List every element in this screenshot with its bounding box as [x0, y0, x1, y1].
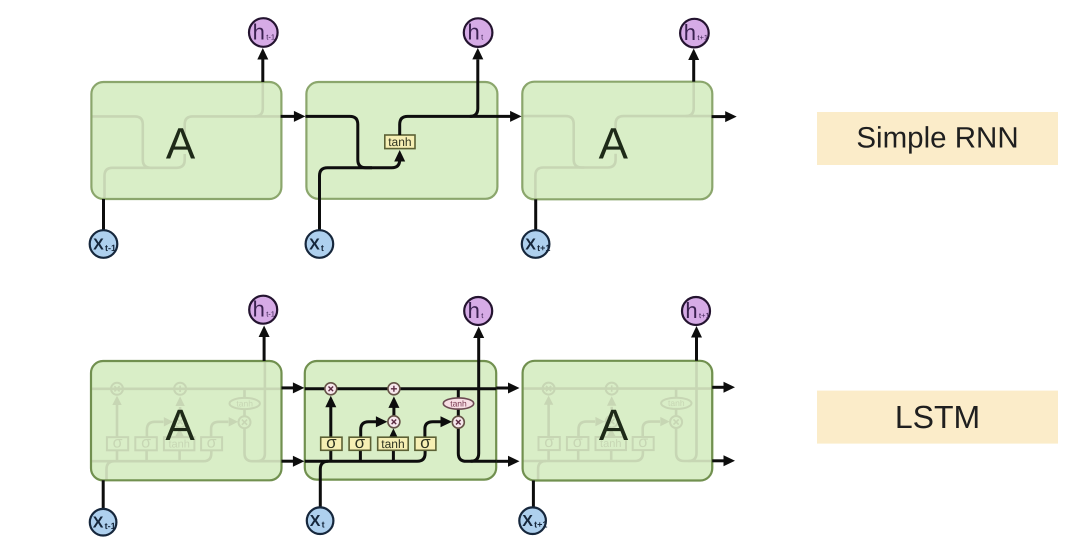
gate boxes sigma sigma tanh sigma: [321, 437, 342, 450]
label: Simple RNN: [817, 112, 1058, 165]
svg-text:t+1: t+1: [534, 520, 547, 530]
wire: hidden state arrow to t+1: [496, 460, 512, 463]
wire: x(t+1) into ghost box: [534, 199, 537, 230]
svg-text:X: X: [310, 513, 321, 530]
wire: hidden state arrow from t-1: [282, 460, 298, 463]
wire: xright down to output line: [458, 428, 496, 461]
node h(t+1) top row: [680, 19, 709, 48]
RNN module box A (t+1, ghost internals): [522, 82, 712, 199]
wire: branch up to h(t) bottom row: [471, 338, 479, 461]
LSTM module box A (t-1, ghost internals): [91, 361, 282, 480]
operator: forget multiply: [325, 383, 337, 395]
svg-text:σ: σ: [420, 433, 431, 452]
tanh oval on cell output: [443, 398, 473, 409]
svg-text:A: A: [599, 401, 629, 450]
svg-text:σ: σ: [355, 433, 366, 452]
svg-text:h: h: [685, 298, 697, 323]
node x(t-1) bottom row: [90, 509, 117, 536]
svg-text:σ: σ: [326, 433, 337, 452]
LSTM module box A (t+1, ghost internals): [523, 361, 714, 480]
svg-text:Simple RNN: Simple RNN: [856, 121, 1018, 154]
node x(t+1) bottom row: [519, 507, 546, 534]
node x(t) bottom row: [307, 507, 334, 534]
node h(t+1) bottom row: [682, 297, 710, 325]
wire: xmid to plus arrow: [392, 407, 395, 416]
svg-text:t-1: t-1: [266, 32, 275, 41]
svg-text:t-1: t-1: [105, 243, 116, 253]
svg-text:h: h: [253, 20, 265, 45]
svg-text:X: X: [309, 237, 320, 254]
wire: hidden state arrow out of t+1: [712, 459, 726, 462]
wire: input bottom line LSTM t: [305, 450, 425, 461]
wire: h(t-1) arrow above ghost box: [261, 59, 264, 82]
operator: output multiply: [452, 416, 464, 428]
wire: x(t-1) into ghost box: [102, 199, 105, 230]
svg-text:t-1: t-1: [105, 521, 116, 531]
svg-text:tanh: tanh: [450, 398, 467, 408]
RNN active module box (t): [306, 82, 497, 199]
svg-text:tanh: tanh: [388, 135, 411, 149]
svg-text:X: X: [93, 237, 104, 254]
wire: RNN t+1 output arrow: [712, 115, 727, 118]
label: LSTM: [817, 391, 1058, 444]
wire: x(t+1) into ghost LSTM: [532, 481, 535, 509]
svg-text:t: t: [322, 520, 325, 530]
LSTM active module box (t): [305, 361, 496, 480]
wire: cell to tanh oval: [457, 389, 460, 416]
wire: input gate curve arrow: [361, 422, 378, 437]
svg-text:t+1: t+1: [537, 243, 550, 253]
svg-text:h: h: [468, 298, 480, 323]
svg-text:h: h: [684, 20, 696, 45]
svg-text:h: h: [467, 20, 479, 45]
wire: x(t) into bottom line: [320, 461, 328, 508]
svg-text:h: h: [253, 297, 265, 322]
svg-text:X: X: [525, 237, 536, 254]
node x(t) top row: [306, 230, 334, 258]
svg-text:A: A: [165, 401, 195, 450]
node x(t+1) top row: [522, 230, 550, 258]
tanh activation box RNN t: [385, 135, 415, 149]
wire: tanh output to next module: [400, 116, 512, 135]
svg-text:t-1: t-1: [266, 310, 275, 319]
wire: gate stubs: [331, 450, 394, 461]
svg-text:t+1: t+1: [699, 311, 710, 320]
operator: cell add: [388, 383, 400, 395]
wire: cell state line LSTM t: [305, 387, 496, 390]
node h(t) top row: [464, 18, 493, 47]
wire: cell state arrow from t-1: [282, 386, 298, 389]
wire: branch up to h(t): [470, 60, 478, 117]
svg-text:tanh: tanh: [381, 437, 404, 451]
wire: h(t-1) state into RNN t: [281, 115, 298, 118]
wire: x(t) up into RNN t: [320, 156, 400, 231]
svg-text:t+1: t+1: [697, 33, 708, 42]
wire: cell state arrow to t+1: [496, 387, 512, 390]
wire: forget gate up arrow: [329, 403, 332, 437]
node h(t-1) top row: [249, 18, 278, 47]
RNN module box A (t-1, ghost internals): [91, 82, 281, 199]
svg-text:t: t: [321, 243, 324, 253]
svg-text:A: A: [599, 119, 629, 168]
svg-text:X: X: [93, 515, 104, 532]
svg-text:A: A: [166, 120, 196, 169]
svg-text:LSTM: LSTM: [895, 399, 980, 435]
wire: h(t-1) arrow bottom row: [263, 337, 266, 361]
wire: output gate curve arrow: [425, 422, 442, 437]
node h(t-1) bottom row: [249, 296, 277, 324]
wire: h(t+1) arrow bottom row: [695, 338, 698, 361]
wire: RNN t internal left path: [305, 116, 372, 167]
operator: input multiply: [388, 416, 400, 428]
svg-text:X: X: [522, 513, 533, 530]
node x(t-1) top row: [90, 230, 118, 258]
wire: x(t-1) into ghost LSTM: [102, 480, 105, 509]
node h(t) bottom row: [464, 297, 492, 325]
wire: candidate tanh up arrow: [392, 435, 395, 438]
wire: cell state arrow out of t+1: [712, 386, 726, 389]
wire: h(t+1) arrow above ghost box: [692, 60, 695, 82]
